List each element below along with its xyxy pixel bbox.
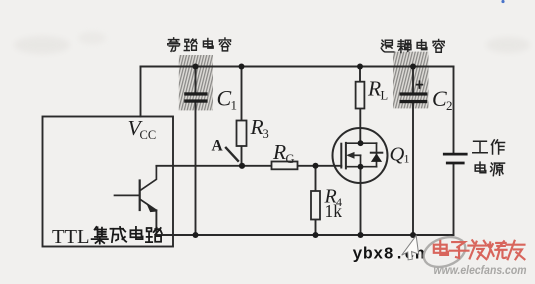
elecfans logo swoosh bbox=[420, 232, 470, 273]
transistor Q: emitter stroke bbox=[141, 200, 157, 211]
transistor Q: emitter arrowhead bbox=[146, 202, 158, 212]
junction dot: C2 top bbox=[410, 64, 416, 70]
battery (working supply) positive plate bbox=[443, 153, 468, 156]
capacitor C2 plates bbox=[400, 92, 428, 95]
svg-text:Q: Q bbox=[390, 143, 405, 165]
C2 polarity plus sign bbox=[416, 80, 423, 89]
wire: emitter drop to ground rail bbox=[155, 210, 157, 235]
label "working supply" (gong zuo dian yuan) bbox=[473, 140, 505, 176]
Q1 body diode triangle bbox=[371, 153, 382, 162]
wire: C1 branch lower bbox=[195, 103, 197, 235]
junction dot: R3 top bbox=[239, 64, 245, 70]
junction dot: C2 bottom bbox=[410, 232, 416, 238]
svg-text:C: C bbox=[217, 86, 232, 111]
resistor R4 bbox=[311, 191, 320, 220]
wire: R4 branch upper bbox=[315, 166, 317, 191]
wire: RL bottom lead / Q1 drain lead bbox=[359, 109, 361, 144]
label "integrated circuit" (ji cheng dian lu) of TTL box bbox=[92, 227, 162, 244]
svg-text:G: G bbox=[286, 152, 295, 166]
svg-text:1: 1 bbox=[404, 152, 410, 166]
label "bypass capacitor" (pang lu dian rong) bbox=[168, 38, 231, 52]
wire: Q1 source lead to ground rail bbox=[360, 167, 362, 235]
svg-text:TTL: TTL bbox=[52, 226, 90, 248]
Q1 drain tap bbox=[346, 142, 377, 144]
junction dot: C1 top bbox=[193, 64, 199, 70]
svg-text:2: 2 bbox=[446, 98, 453, 113]
node A probe pointer bbox=[225, 147, 239, 162]
elecfans logo text (dian zi fa shao you) bbox=[434, 240, 525, 259]
Q1 body-source join bbox=[360, 155, 362, 166]
junction dot: Q1 source bottom bbox=[358, 232, 364, 238]
wire: bottom ground rail bbox=[157, 234, 453, 236]
Q1 body circle bbox=[333, 128, 388, 183]
watermark cursor arrow bbox=[401, 233, 423, 262]
wire: R3 branch upper bbox=[241, 67, 243, 121]
resistor RG bbox=[272, 162, 298, 170]
svg-text:C: C bbox=[432, 86, 447, 111]
Q1 body diode cathode bar bbox=[371, 152, 383, 154]
wire: C2 branch upper bbox=[412, 67, 414, 93]
TTL IC box bbox=[43, 117, 174, 247]
junction dot: Q1 source node bbox=[358, 164, 364, 170]
Q1 body tap bbox=[349, 154, 361, 156]
junction dot: R4 bottom bbox=[313, 232, 319, 238]
Q1 body substrate arrowhead bbox=[346, 152, 354, 159]
wire: top supply rail bbox=[141, 66, 454, 68]
wire: node A horizontal net (collector to gate) bbox=[156, 165, 341, 167]
svg-text:3: 3 bbox=[263, 127, 269, 141]
wire: R4 branch lower bbox=[315, 220, 317, 236]
svg-text:R: R bbox=[272, 140, 286, 164]
wire: RL top lead bbox=[359, 67, 361, 82]
transistor Q (TTL output BJT): base lead bbox=[115, 194, 140, 196]
wire: C1 branch upper bbox=[195, 67, 197, 93]
battery negative plate bbox=[446, 162, 465, 165]
transistor Q: base bar bbox=[139, 181, 141, 211]
svg-text:1k: 1k bbox=[325, 201, 343, 221]
svg-text:L: L bbox=[381, 88, 389, 102]
wire: right column bottom (battery - to ground rail) bbox=[453, 164, 455, 235]
wire: R3 branch lower bbox=[241, 146, 243, 166]
junction dot: RL top bbox=[357, 64, 363, 70]
MOSFET Q1 bbox=[333, 128, 388, 183]
capacitor C1 plates bbox=[184, 92, 207, 95]
resistor R3 bbox=[237, 121, 247, 147]
decoupling-capacitor highlight hatch bbox=[393, 52, 429, 109]
Q1 channel line bbox=[345, 143, 347, 169]
svg-text:CC: CC bbox=[140, 128, 157, 142]
svg-text:1: 1 bbox=[231, 98, 238, 113]
svg-text:R: R bbox=[367, 77, 381, 101]
svg-text:A: A bbox=[212, 137, 224, 154]
wire: right column top (to battery +) bbox=[453, 67, 455, 153]
Q1 source tap bbox=[346, 166, 377, 168]
wire: Vcc drop to TTL box bbox=[140, 67, 142, 117]
label "decoupling capacitor" (tui ou dian rong) bbox=[381, 39, 444, 52]
Q1 body diode column bbox=[376, 143, 378, 167]
svg-text:www.elecfans.com: www.elecfans.com bbox=[434, 265, 527, 277]
resistor RL bbox=[356, 82, 365, 109]
junction dot: R4 top bbox=[313, 163, 319, 169]
transistor Q: collector stroke bbox=[141, 166, 157, 190]
junction dot: node A bbox=[239, 163, 245, 169]
bypass-capacitor highlight hatch bbox=[179, 55, 213, 110]
junction dot: C1 bottom bbox=[193, 232, 199, 238]
Q1 gate plate bbox=[340, 144, 342, 168]
junction dot: Q1 drain node bbox=[358, 140, 364, 146]
wire: C2 branch lower bbox=[412, 103, 414, 235]
